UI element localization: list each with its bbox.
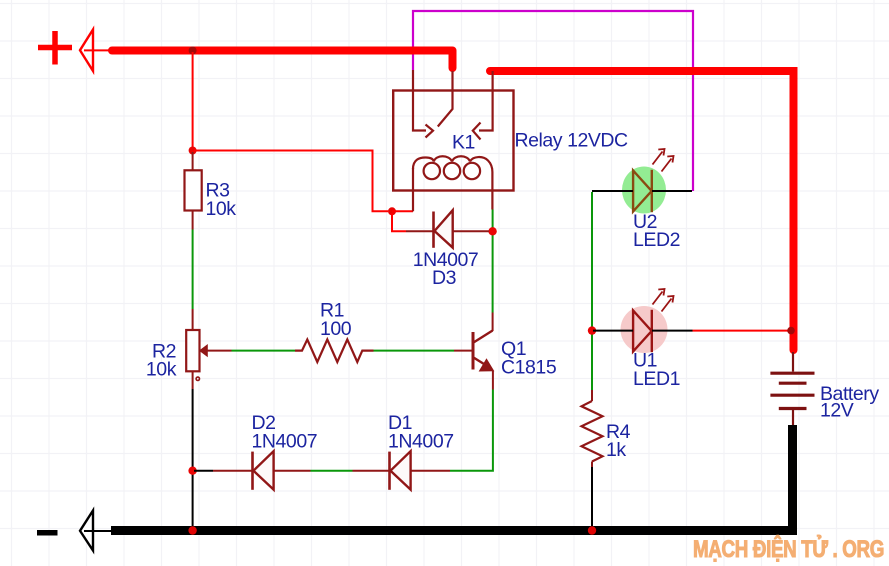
wire coil node down to D3 cathode bbox=[392, 213, 406, 231]
wire +V thick bus (top) bbox=[112, 51, 453, 69]
label U2 LED2 bbox=[633, 211, 680, 251]
junction dot D2 node bbox=[188, 467, 196, 475]
right contact pin bbox=[479, 71, 493, 131]
resistor R1 bbox=[295, 340, 374, 363]
label U1 LED1 bbox=[633, 350, 680, 390]
LED U1 bbox=[633, 289, 673, 352]
diode D1 bbox=[353, 451, 451, 490]
wire R3 to R2 (green) bbox=[192, 230, 194, 310]
wire D2 to D1 (green) bbox=[311, 470, 353, 472]
junction dot LED1 node bbox=[588, 326, 596, 334]
label Battery 12V bbox=[820, 383, 879, 421]
svg-text:1k: 1k bbox=[606, 439, 626, 461]
common pin and blade bbox=[438, 71, 453, 127]
label R1 100 bbox=[320, 300, 352, 340]
diode D3 bbox=[406, 210, 489, 248]
label D2 1N4007 bbox=[252, 412, 318, 452]
transistor Q1 bbox=[454, 313, 494, 390]
label R4 1k bbox=[606, 421, 631, 461]
svg-text:C1815: C1815 bbox=[501, 356, 557, 378]
junction dot relay coil node bbox=[388, 207, 396, 215]
label Q1 C1815 bbox=[501, 338, 557, 378]
LED U1 halo bbox=[621, 306, 668, 353]
wire D2 node to D2 bbox=[194, 470, 213, 472]
label R2 10k bbox=[146, 340, 177, 380]
svg-text:K1: K1 bbox=[452, 131, 475, 153]
+ terminal arrow connector bbox=[80, 30, 112, 72]
LED U2 bbox=[633, 149, 673, 212]
wire LED1 anode (black) bbox=[593, 330, 633, 332]
wire bus to R3 node bbox=[192, 52, 194, 151]
wire LED2 anode (black) bbox=[592, 190, 633, 192]
wire LED1 to battery (red) bbox=[693, 330, 791, 332]
label R3 10k bbox=[206, 180, 237, 220]
potentiometer R2 bbox=[186, 309, 231, 389]
diode D2 bbox=[213, 451, 311, 490]
LED U2 halo bbox=[622, 167, 666, 214]
resistor R3 bbox=[185, 152, 202, 230]
wire battery to GND bus (black thick) bbox=[111, 425, 793, 531]
svg-text:LED2: LED2 bbox=[633, 229, 680, 251]
wire coil node to coil pin bbox=[392, 210, 413, 212]
svg-text:MẠCH ĐIỆN TỬ . ORG: MẠCH ĐIỆN TỬ . ORG bbox=[693, 534, 884, 563]
wire LED1 cathode (black) bbox=[652, 330, 693, 332]
resistor R4 bbox=[582, 390, 603, 467]
junction dot on bus at R3 branch bbox=[189, 47, 197, 55]
wire magenta net (relay contact to LED2 cathode) bbox=[413, 11, 693, 191]
wire R2 wiper to R1 (green) bbox=[232, 350, 296, 352]
label D3 1N4007 bbox=[413, 249, 479, 289]
junction dot R3 top node bbox=[189, 147, 197, 155]
label D1 1N4007 bbox=[388, 412, 454, 452]
wire R1 to Q1 base (green) bbox=[374, 350, 455, 352]
svg-text:D3: D3 bbox=[432, 267, 456, 289]
- terminal arrow connector bbox=[80, 511, 112, 551]
relay K1 bbox=[393, 70, 513, 211]
svg-text:12V: 12V bbox=[820, 400, 854, 422]
svg-text:LED1: LED1 bbox=[633, 368, 680, 390]
svg-text:Relay 12VDC: Relay 12VDC bbox=[515, 129, 629, 151]
wire LED2 cathode (black) bbox=[652, 190, 692, 192]
junction dot GND at R4 bbox=[588, 526, 596, 534]
wire D1 to Q1 emitter (green) bbox=[450, 390, 493, 471]
+ terminal plus sign bbox=[38, 31, 72, 65]
left contact pin bbox=[413, 70, 426, 131]
junction dot on battery bus bbox=[787, 327, 795, 335]
- terminal minus sign bbox=[37, 530, 58, 536]
wire LED2 node down to LED1 node and R4 (green) bbox=[591, 192, 593, 390]
junction dot GND at R2 bbox=[188, 526, 196, 534]
svg-text:1N4007: 1N4007 bbox=[252, 430, 318, 452]
svg-text:1N4007: 1N4007 bbox=[388, 430, 454, 452]
svg-text:100: 100 bbox=[320, 318, 352, 340]
wire relay coil to Q1 collector (green) bbox=[492, 210, 494, 313]
wire R3 node to relay coil node bbox=[194, 151, 388, 212]
svg-text:10k: 10k bbox=[206, 198, 237, 220]
wire R4 to GND bus (black) bbox=[591, 467, 593, 528]
battery bbox=[770, 352, 814, 426]
svg-text:10k: 10k bbox=[146, 359, 177, 381]
wire R2 bottom to GND bus (black) bbox=[192, 389, 194, 529]
wire +V thick bus 2 (to battery) bbox=[490, 71, 794, 350]
coil bbox=[412, 168, 414, 211]
junction dot D3 anode / collector bbox=[488, 227, 496, 235]
